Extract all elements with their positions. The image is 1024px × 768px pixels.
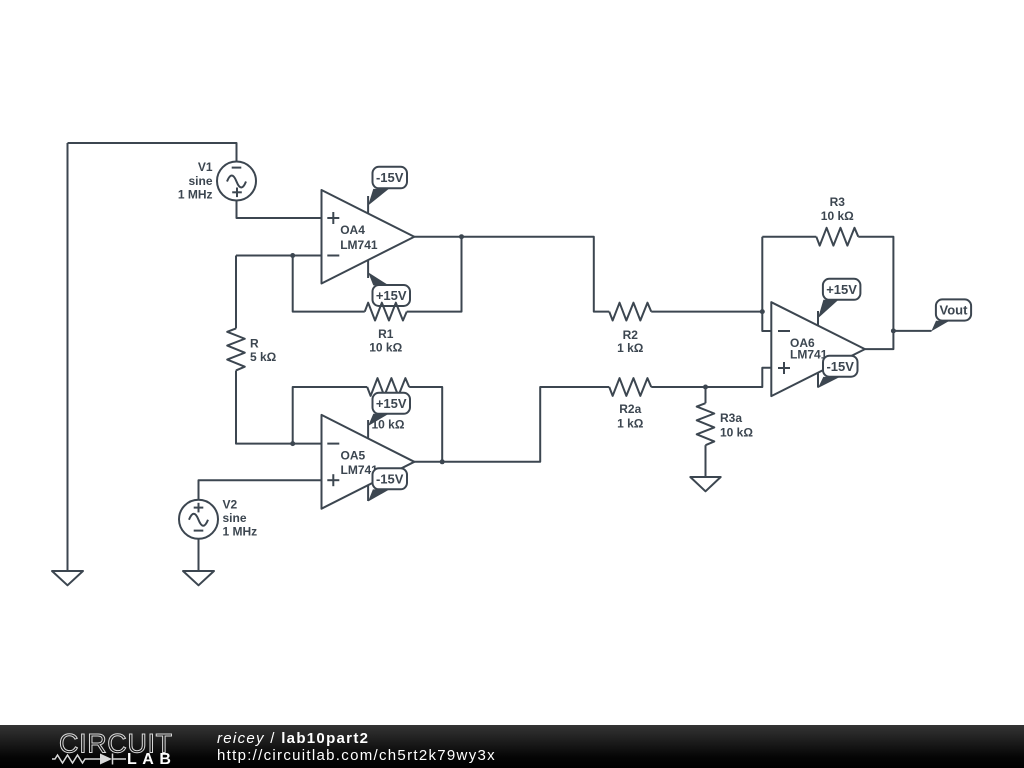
op-amp OA6 (LM741) xyxy=(771,302,865,396)
svg-text:1 MHz: 1 MHz xyxy=(178,188,213,202)
footer bar xyxy=(0,725,1024,768)
R2a name/value labels xyxy=(617,402,644,431)
-15V power flag (OA5 bottom) xyxy=(373,468,408,489)
R3 name/value labels xyxy=(821,195,854,223)
svg-text:Vout: Vout xyxy=(940,303,969,318)
wire: R3a bottom lead to ground xyxy=(705,445,707,477)
voltage source V2 (sine 1 MHz) xyxy=(179,500,218,539)
wire: R 5k top lead column xyxy=(235,256,237,329)
wire: V2 minus terminal to ground xyxy=(198,539,200,571)
svg-text:LAB: LAB xyxy=(127,751,176,768)
OA4 name labels xyxy=(340,223,378,252)
resistor R3 (10 kOhm) xyxy=(816,228,858,246)
resistor R (5 kOhm, vertical) xyxy=(227,328,245,370)
+15V power flag (OA4 bottom) xyxy=(373,285,411,306)
feedback resistor of OA5 (10 kOhm) xyxy=(367,378,409,396)
svg-text:1 kΩ: 1 kΩ xyxy=(617,417,644,431)
V1 name/value labels xyxy=(178,160,213,202)
node: R3a tap junction xyxy=(703,385,708,390)
wire: R1 right lead up to OA4 output xyxy=(407,237,462,312)
svg-text:10 kΩ: 10 kΩ xyxy=(369,341,402,355)
OA4 negative supply pin xyxy=(368,189,389,214)
node: OA5 output junction xyxy=(440,459,445,464)
OA6 name labels xyxy=(790,336,828,362)
resistor R2a (1 kOhm) xyxy=(609,378,651,396)
Vout net flag xyxy=(931,299,971,331)
svg-text:R: R xyxy=(250,336,259,350)
svg-text:1 MHz: 1 MHz xyxy=(223,525,258,539)
svg-text:R3a: R3a xyxy=(720,411,742,425)
op-amp OA4 (LM741) xyxy=(322,190,415,284)
svg-text:10 kΩ: 10 kΩ xyxy=(720,426,753,440)
wire: OA5 feedback left lead and drop to inverting input xyxy=(293,387,368,444)
svg-text:LM741: LM741 xyxy=(790,348,828,362)
node: OA6 inverting input junction xyxy=(760,309,765,314)
+15V power flag (OA5 top) xyxy=(373,393,411,414)
R name/value labels xyxy=(250,336,277,364)
V2 name/value labels xyxy=(223,498,258,539)
wire: R3a top lead xyxy=(705,387,707,403)
+15V power flag (OA6 top) xyxy=(823,279,861,300)
svg-text:10 kΩ: 10 kΩ xyxy=(821,209,854,223)
OA5 positive supply pin xyxy=(368,414,389,439)
CircuitLab logo xyxy=(0,725,200,768)
R3a name/value labels xyxy=(720,411,753,440)
wire: R2a right lead to OA6 non-inverting node xyxy=(651,368,771,387)
resistor R1 (10 kOhm) xyxy=(365,303,407,321)
wire: top rail from left corner to V1 top terminal xyxy=(68,143,237,162)
wire: V1 plus terminal to OA4 non-inverting input xyxy=(237,201,322,219)
svg-text:R1: R1 xyxy=(378,327,394,341)
op-amp OA5 (LM741) xyxy=(322,415,415,509)
wire: OA5 output to R2a xyxy=(414,387,609,462)
wire: OA4 inverting feedback drop (junction to R1 left) xyxy=(293,256,365,312)
svg-text:1 kΩ: 1 kΩ xyxy=(617,341,644,355)
wire: ground rail from top-left corner down to ground symbol xyxy=(67,143,69,571)
svg-text:sine: sine xyxy=(188,174,212,188)
node: OA4 inverting input junction xyxy=(290,253,295,258)
ground (V2) xyxy=(183,571,214,585)
wire: Vout tap xyxy=(893,330,931,332)
ground (left rail) xyxy=(52,571,83,585)
svg-text:+15V: +15V xyxy=(376,288,407,303)
wire: R3 left lead xyxy=(762,236,816,238)
svg-text:5 kΩ: 5 kΩ xyxy=(250,350,277,364)
svg-text:OA5: OA5 xyxy=(341,449,366,463)
resistor R2 (1 kOhm) xyxy=(609,303,651,321)
ground (R3a) xyxy=(690,477,720,491)
-15V power flag (OA6 bottom) xyxy=(823,356,858,377)
svg-text:sine: sine xyxy=(223,511,247,525)
OA6 negative supply pin xyxy=(818,373,840,388)
svg-text:V1: V1 xyxy=(198,160,213,174)
wire: OA6 inverting input column (R3 left to input stub) xyxy=(762,237,771,331)
wire: OA5 feedback right lead down to output xyxy=(409,387,442,462)
OA6 positive supply pin xyxy=(818,300,839,326)
-15V power flag (OA4 top) xyxy=(373,167,408,189)
svg-text:-15V: -15V xyxy=(376,472,404,487)
svg-text:-15V: -15V xyxy=(826,359,854,374)
svg-text:+15V: +15V xyxy=(376,396,407,411)
wire: OA4 output to R2 xyxy=(414,237,609,312)
OA5 name labels xyxy=(341,449,379,478)
R1 name/value labels xyxy=(369,327,402,355)
svg-text:V2: V2 xyxy=(223,498,238,512)
node: OA5 inverting input junction xyxy=(290,441,295,446)
svg-text:R2a: R2a xyxy=(619,402,641,416)
OA4 positive supply pin xyxy=(368,260,389,285)
svg-text:OA4: OA4 xyxy=(340,223,365,237)
R2 name/value labels xyxy=(617,328,644,355)
wire: R2 right lead to OA6 inverting node xyxy=(651,311,762,313)
OA5 negative supply pin xyxy=(368,485,389,501)
resistor R3a (10 kOhm, vertical) xyxy=(697,403,715,445)
svg-text:R2: R2 xyxy=(623,328,639,342)
svg-text:+15V: +15V xyxy=(826,282,857,297)
wire: V2 plus terminal to OA5 non-inverting input xyxy=(199,480,322,500)
svg-text:LM741: LM741 xyxy=(340,238,378,252)
node: OA4 output junction xyxy=(459,234,464,239)
node: Vout tap junction xyxy=(891,328,896,333)
voltage source V1 (sine 1 MHz) xyxy=(217,162,256,201)
wire: R 5k bottom lead to OA5 inverting input row xyxy=(236,370,322,443)
svg-text:-15V: -15V xyxy=(376,170,404,185)
wire: OA4 inverting input row to R 5k top xyxy=(236,255,322,257)
wire: R3 right lead down to OA6 output xyxy=(858,237,893,349)
svg-text:R3: R3 xyxy=(830,195,846,209)
